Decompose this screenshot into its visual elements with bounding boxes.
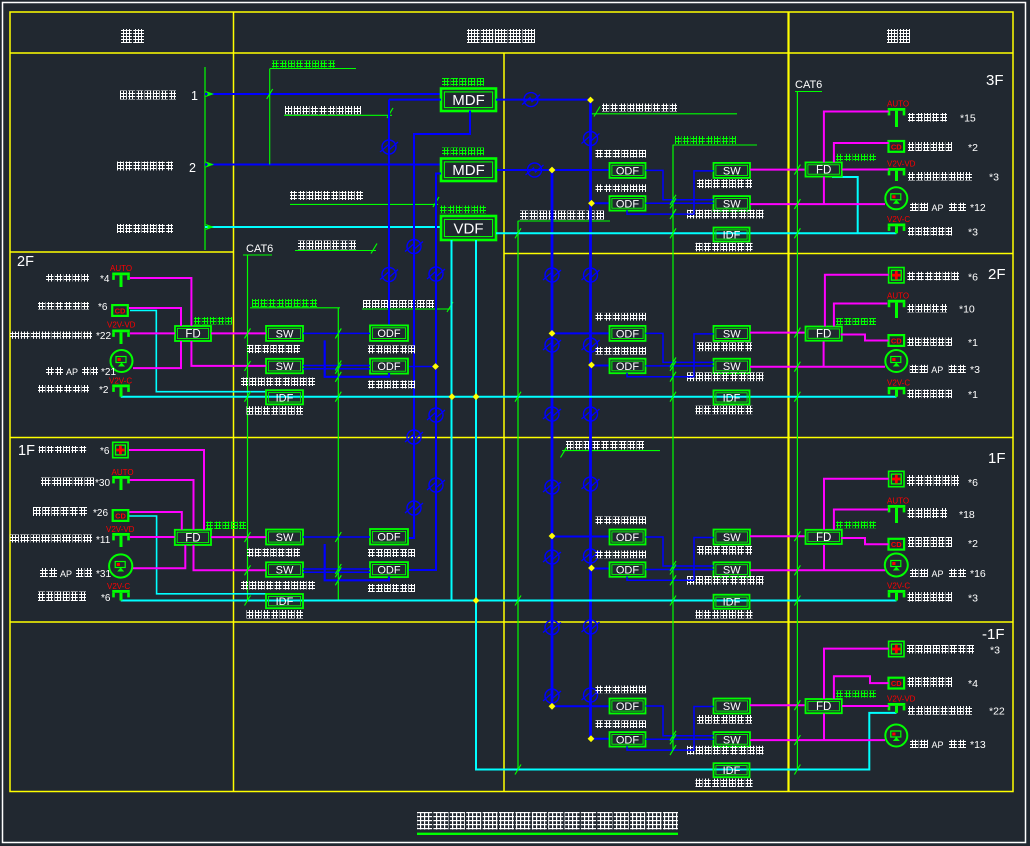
svg-text:AP: AP (66, 367, 78, 377)
svg-text:*2: *2 (968, 142, 978, 154)
svg-text:FD: FD (185, 329, 200, 341)
svg-text:SW: SW (723, 328, 741, 340)
svg-text:SW: SW (723, 198, 741, 210)
svg-text:ODF: ODF (377, 361, 401, 373)
svg-text:ODF: ODF (377, 565, 401, 577)
svg-text:*16: *16 (970, 568, 986, 580)
svg-text:CD: CD (891, 679, 902, 688)
svg-text:ODF: ODF (616, 328, 640, 340)
svg-text:V2V-C: V2V-C (887, 378, 910, 387)
svg-text:AUTO: AUTO (887, 291, 909, 300)
svg-text:V2V-C: V2V-C (887, 582, 910, 591)
svg-text:*15: *15 (960, 113, 976, 125)
svg-text:*1: *1 (968, 337, 978, 349)
svg-text:1F: 1F (18, 443, 35, 459)
svg-text:2: 2 (189, 161, 196, 175)
svg-text:ODF: ODF (616, 734, 640, 746)
svg-text:AP: AP (932, 203, 944, 213)
svg-text:FD: FD (185, 533, 200, 545)
svg-text:*4: *4 (968, 678, 978, 690)
svg-text:*3: *3 (989, 172, 999, 184)
svg-text:AUTO: AUTO (887, 100, 909, 109)
svg-text:*3: *3 (968, 227, 978, 239)
svg-text:VDF: VDF (454, 220, 484, 237)
svg-text:*6: *6 (98, 302, 108, 313)
svg-text:3F: 3F (986, 72, 1004, 89)
svg-text:ODF: ODF (616, 565, 640, 577)
svg-text:ODF: ODF (616, 198, 640, 210)
svg-text:MDF: MDF (452, 162, 485, 179)
svg-text:IDF: IDF (276, 392, 294, 404)
svg-text:*2: *2 (99, 385, 109, 396)
svg-text:SW: SW (723, 361, 741, 373)
svg-text:ODF: ODF (616, 165, 640, 177)
svg-text:ODF: ODF (616, 701, 640, 713)
svg-text:FD: FD (816, 532, 831, 544)
svg-text:-1F: -1F (982, 626, 1005, 643)
svg-text:*3: *3 (990, 645, 1000, 657)
svg-text:FD: FD (816, 329, 831, 341)
svg-text:*6: *6 (101, 593, 111, 604)
svg-text:SW: SW (723, 165, 741, 177)
svg-text:AP: AP (931, 365, 943, 375)
svg-text:CD: CD (115, 511, 126, 520)
svg-text:*26: *26 (93, 508, 108, 519)
svg-text:2F: 2F (17, 254, 34, 270)
svg-text:AUTO: AUTO (112, 468, 134, 477)
svg-text:CD: CD (891, 142, 902, 151)
svg-text:AP: AP (60, 569, 72, 579)
svg-text:1F: 1F (988, 450, 1006, 467)
svg-text:*22: *22 (96, 331, 111, 342)
svg-text:SW: SW (276, 565, 294, 577)
svg-text:AP: AP (932, 569, 944, 579)
svg-text:MDF: MDF (452, 92, 485, 109)
svg-text:*1: *1 (968, 389, 978, 401)
svg-text:AUTO: AUTO (110, 264, 132, 273)
svg-text:IDF: IDF (723, 597, 741, 609)
svg-text:*10: *10 (959, 303, 975, 315)
svg-text:SW: SW (276, 532, 294, 544)
svg-text:1: 1 (191, 89, 198, 103)
svg-text:*30: *30 (95, 478, 110, 489)
svg-text:*13: *13 (970, 739, 986, 751)
svg-text:ODF: ODF (616, 361, 640, 373)
svg-text:FD: FD (816, 165, 831, 177)
svg-text:V2V-VD: V2V-VD (106, 525, 135, 534)
svg-text:CD: CD (115, 306, 126, 315)
svg-text:ODF: ODF (377, 532, 401, 544)
svg-text:CAT6: CAT6 (246, 243, 273, 255)
svg-text:*12: *12 (970, 202, 986, 214)
svg-text:SW: SW (723, 734, 741, 746)
svg-text:*3: *3 (968, 593, 978, 605)
svg-text:ODF: ODF (377, 328, 401, 340)
svg-text:*6: *6 (968, 271, 978, 283)
svg-text:SW: SW (276, 361, 294, 373)
svg-text:IDF: IDF (276, 596, 294, 608)
svg-text:2F: 2F (988, 266, 1006, 283)
svg-text:FD: FD (816, 701, 831, 713)
svg-text:AP: AP (932, 740, 944, 750)
svg-text:SW: SW (723, 701, 741, 713)
svg-text:*3: *3 (970, 364, 980, 376)
svg-text:*4: *4 (100, 274, 110, 285)
svg-text:ODF: ODF (616, 532, 640, 544)
svg-text:SW: SW (723, 532, 741, 544)
svg-text:IDF: IDF (723, 392, 741, 404)
svg-text:V2V-VD: V2V-VD (107, 321, 136, 330)
svg-text:V2V-VD: V2V-VD (887, 160, 916, 169)
svg-text:CD: CD (891, 336, 902, 345)
svg-text:*18: *18 (959, 509, 975, 521)
svg-text:*2: *2 (968, 538, 978, 550)
svg-text:CAT6: CAT6 (795, 79, 822, 91)
svg-text:SW: SW (276, 328, 294, 340)
svg-text:*6: *6 (968, 477, 978, 489)
svg-text:SW: SW (723, 565, 741, 577)
svg-text:CD: CD (891, 540, 902, 549)
svg-text:*31: *31 (96, 569, 111, 580)
svg-text:V2V-C: V2V-C (107, 582, 130, 591)
svg-text:IDF: IDF (723, 229, 741, 241)
svg-text:IDF: IDF (723, 765, 741, 777)
svg-text:V2V-C: V2V-C (109, 377, 132, 386)
svg-text:V2V-C: V2V-C (887, 215, 910, 224)
svg-text:AUTO: AUTO (887, 497, 909, 506)
svg-text:*6: *6 (100, 446, 110, 457)
svg-text:V2V-VD: V2V-VD (887, 695, 916, 704)
svg-text:*22: *22 (989, 706, 1005, 718)
svg-text:*11: *11 (96, 535, 111, 546)
